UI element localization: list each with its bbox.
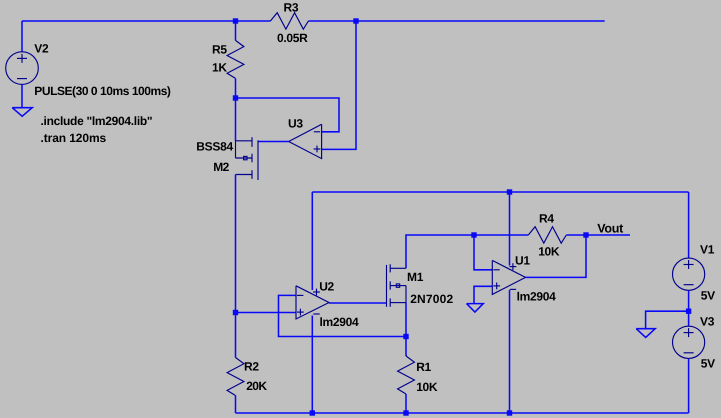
svg-text:R4: R4 [539, 211, 554, 225]
svg-text:U1: U1 [515, 254, 530, 268]
svg-text:5V: 5V [701, 357, 715, 371]
op-amp U3 [289, 124, 322, 158]
node junction M2 drain / U2 plus input wire [233, 310, 238, 315]
wire U1 plus input to ground [474, 286, 492, 303]
svg-text:R1: R1 [416, 360, 431, 374]
resistor R3 [270, 13, 308, 30]
wire ground branch from V1/V3 node [646, 311, 689, 329]
node junction R4 / U1 output / Vout [583, 232, 588, 237]
wire V2 top lead [21, 21, 23, 52]
wire top rail from V2 to R3 [22, 20, 270, 22]
svg-text:M2: M2 [213, 160, 229, 174]
wire V2 bottom lead [21, 84, 23, 108]
wire long horizontal V+ rail to sources [312, 191, 688, 193]
svg-text:BSS84: BSS84 [196, 139, 233, 153]
transistor M2 PMOS BSS84 [236, 137, 259, 180]
svg-text:PULSE(30 0 10ms 100ms): PULSE(30 0 10ms 100ms) [34, 84, 171, 98]
wire U3 plus input from top rail [322, 21, 356, 149]
op-amp U2 lm2904 [296, 286, 329, 319]
ground symbol for V1/V3 midpoint [636, 329, 655, 338]
svg-text:.tran 120ms: .tran 120ms [41, 131, 107, 145]
ground below U1 plus input [467, 304, 484, 312]
svg-text:V3: V3 [700, 314, 715, 328]
svg-text:0.05R: 0.05R [277, 31, 308, 45]
wire R5 bottom lead [235, 78, 237, 98]
wire U3 output to M2 gate [258, 141, 289, 143]
svg-text:5V: 5V [701, 288, 715, 302]
wire U1 V+ power lead [509, 192, 511, 266]
node junction R1 / ground rail [403, 410, 408, 415]
resistor R4 [528, 227, 566, 244]
wire V1 bottom to V3 top [688, 290, 690, 326]
voltage source V2 [6, 52, 39, 85]
node junction V+ rail / U1 power [507, 189, 512, 194]
voltage source V1 [673, 258, 705, 290]
voltage source V3 [673, 326, 705, 358]
svg-text:10K: 10K [538, 245, 560, 259]
wire R5 top lead [235, 21, 237, 40]
svg-text:1K: 1K [212, 61, 227, 75]
svg-text:V2: V2 [34, 42, 49, 56]
svg-text:U3: U3 [288, 117, 303, 131]
wire U2 plus input [236, 312, 297, 314]
wire U1 minus input drop [474, 235, 492, 270]
wire V3 bottom to ground rail [688, 358, 690, 413]
wire U1 V- power lead to ground rail [509, 290, 511, 413]
svg-text:20K: 20K [246, 379, 267, 393]
node junction U1 V- / ground rail [507, 410, 512, 415]
wire U2 output to M1 gate [329, 302, 387, 304]
wire U2 V- power lead to ground rail [311, 316, 313, 414]
wire U2 V+ power lead [311, 192, 313, 290]
svg-text:Vout: Vout [597, 222, 624, 236]
ground below V2 [12, 108, 32, 117]
wire node R5 to U3 minus input [236, 98, 340, 132]
svg-text:lm2904: lm2904 [320, 315, 360, 329]
svg-text:M1: M1 [407, 270, 424, 284]
node junction U2 V- / ground rail [310, 410, 315, 415]
svg-text:V1: V1 [700, 243, 715, 257]
svg-text:2N7002: 2N7002 [410, 292, 453, 306]
node junction top rail / U3 plus input wire [353, 18, 358, 23]
svg-text:R3: R3 [284, 0, 299, 14]
node junction R4 wire / U1 minus input [471, 232, 476, 237]
svg-text:U2: U2 [319, 279, 334, 293]
node junction top rail / R5 [233, 18, 238, 23]
wire R4 right lead to Vout node [566, 234, 630, 236]
node junction R5 / M2 source [233, 95, 238, 100]
wire M1 source down [405, 303, 407, 356]
svg-text:lm2904: lm2904 [517, 289, 557, 303]
node junction feedback / M1 source / R1 top [403, 334, 408, 339]
transistor M1 NMOS 2N7002 [387, 264, 407, 307]
wire U2 minus input feedback loop [279, 295, 407, 336]
resistor R1 [398, 356, 415, 394]
wire R1 bottom lead [405, 394, 407, 413]
wire M2 drain down to R2 top [235, 175, 237, 358]
node junction V1/V3 midpoint ground tap [686, 309, 691, 314]
svg-text:R5: R5 [212, 43, 227, 57]
svg-text:.include "lm2904.lib": .include "lm2904.lib" [41, 114, 153, 128]
wire V1 top lead from V+ rail [688, 192, 690, 258]
svg-text:10K: 10K [416, 380, 438, 394]
wire U1 output to Vout node [526, 235, 587, 277]
svg-text:R2: R2 [244, 359, 259, 373]
wire R2 bottom lead [235, 396, 237, 414]
resistor R2 [227, 358, 244, 396]
wire top rail from R3 to right end [308, 20, 604, 22]
wire M2 source lead [235, 98, 237, 141]
wire bottom ground rail [236, 412, 689, 414]
resistor R5 [227, 40, 244, 78]
wire M1 drain up and right to R4 [406, 235, 528, 268]
op-amp U1 lm2904 [492, 260, 525, 294]
